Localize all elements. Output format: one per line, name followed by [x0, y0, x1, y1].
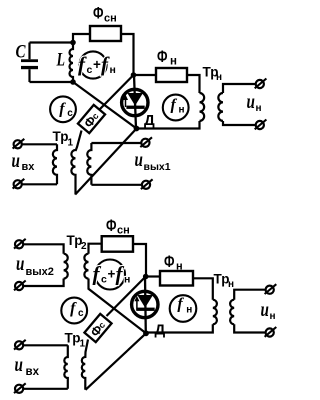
svg-text:вх: вх — [22, 161, 36, 173]
svg-text:с: с — [78, 308, 84, 319]
wire filter Fc to Tr1 winding w2 — [76, 131, 82, 152]
wire Trn primary bottom to node D — [137, 121, 200, 129]
terminal uvyx1 bottom — [141, 179, 153, 189]
wire node A up to filter Fcn — [73, 34, 90, 43]
filter Fcn2 box — [102, 236, 133, 252]
wire uvx2 top terminal to Tr1b w1 — [23, 344, 67, 346]
svg-text:Ф: Ф — [106, 217, 117, 235]
terminal uvx2 top — [14, 340, 26, 350]
oscillator circle fn2 — [170, 295, 197, 322]
wire node C to filter Fn — [134, 74, 157, 76]
transformer Trn secondary winding — [218, 93, 223, 121]
transformer Tr1b winding w2 — [82, 357, 85, 390]
terminal un2 bottom — [265, 327, 277, 337]
filter Fn2 box — [160, 271, 193, 286]
svg-text:с: с — [67, 108, 73, 119]
svg-text:Тр: Тр — [53, 129, 69, 144]
capacitor C1 plates — [21, 59, 38, 69]
capacitor C1 leads — [28, 43, 30, 83]
oscillator circle fc — [50, 96, 76, 122]
svg-text:1: 1 — [68, 138, 74, 149]
svg-text:н: н — [186, 305, 192, 316]
svg-text:сн: сн — [104, 13, 117, 25]
wire uvx top terminal to Tr1 w1 — [22, 143, 57, 145]
wire Fn to transformer Trn primary — [187, 75, 200, 93]
svg-text:н: н — [256, 103, 262, 114]
diode D1 small arrow mark — [123, 95, 128, 108]
wire Tr1 w3 bottom to terminal uvyx1 — [91, 184, 141, 186]
transformer Tr2 winding w1 — [64, 254, 68, 279]
wire bottom C to node B — [30, 81, 74, 83]
signal circle fc+fn 2 — [95, 260, 125, 290]
node D — [134, 126, 140, 132]
node A — [70, 40, 76, 46]
wire diagonal node D2 to apex2 — [86, 333, 147, 390]
label Fc2 rotated in diamond — [88, 319, 109, 340]
wire Trn2 primary bottom to node D2 — [146, 324, 213, 332]
wire top C to node A — [30, 41, 74, 43]
svg-text:н: н — [170, 56, 177, 68]
oscillator circle fc2 — [61, 298, 87, 324]
svg-text:н: н — [270, 311, 276, 322]
diode D1 circle — [122, 89, 148, 115]
wire uvx bottom terminal to Tr1 w1 — [22, 183, 57, 185]
signal circle fc+fn — [79, 51, 106, 78]
label Fc rotated in diamond — [81, 110, 102, 131]
filter Fcn box — [90, 26, 121, 41]
svg-text:C: C — [16, 41, 26, 62]
terminal uvx2 bottom — [14, 383, 26, 393]
svg-text:u: u — [261, 297, 269, 321]
transformer Tr2 winding w2 — [84, 254, 88, 279]
wire node C down through diode to node D — [134, 75, 136, 129]
node B — [70, 79, 76, 85]
diode D2 triangle and cathode bar — [136, 295, 154, 311]
terminal uvyx2 bottom — [14, 281, 26, 291]
wire Trn2 secondary bottom to terminal — [234, 324, 265, 332]
wire filter Fc2 to Tr1b winding w2 — [85, 340, 88, 359]
svg-text:вых2: вых2 — [26, 266, 54, 278]
transformer Tr1 winding w1 (primary) — [53, 144, 57, 184]
terminal uvx bottom — [13, 179, 25, 189]
transformer Tr1 winding w3 (output) — [87, 143, 91, 185]
svg-text:2: 2 — [81, 241, 87, 252]
svg-text:Ф: Ф — [157, 48, 168, 66]
wire node C2 down through diode to node D2 — [144, 277, 147, 334]
svg-text:вх: вх — [26, 366, 40, 378]
wire diagonal node C to filter Fc — [100, 75, 134, 110]
svg-text:L: L — [56, 50, 65, 71]
svg-text:Тр: Тр — [65, 331, 81, 346]
inductor L — [70, 43, 74, 83]
svg-text:сн: сн — [117, 225, 130, 237]
wire Fcn to node C — [121, 34, 134, 75]
terminal uvyx1 top — [140, 137, 152, 147]
filter Fc rotated box — [78, 105, 105, 133]
node D2 — [143, 330, 149, 336]
svg-text:н: н — [179, 105, 185, 116]
wire uvx2 bottom terminal to Tr1b w1 — [23, 388, 67, 390]
svg-text:н: н — [228, 279, 234, 290]
filter Fn box — [156, 68, 187, 82]
terminal un bottom — [255, 120, 267, 130]
svg-text:н: н — [124, 274, 130, 286]
wire diagonal node D to apex — [75, 129, 136, 195]
wire Fcn2 to node C2 — [133, 244, 146, 277]
transformer Trn2 secondary winding — [230, 300, 234, 325]
svg-text:u: u — [247, 89, 255, 113]
svg-text:Д: Д — [144, 112, 155, 129]
diode D1 triangle and cathode bar — [126, 93, 144, 109]
transformer Tr1 winding w2 (middle) — [71, 150, 75, 195]
wire Tr2 w2 top to filter Fcn2 — [89, 244, 102, 254]
wire diagonal node C2 to filter Fc2 — [107, 277, 146, 317]
svg-text:1: 1 — [80, 339, 86, 350]
node C — [131, 72, 137, 78]
svg-text:с: с — [101, 274, 107, 286]
svg-text:u: u — [15, 352, 23, 376]
terminal uvx top — [13, 139, 25, 149]
diode D2 circle — [132, 291, 158, 317]
svg-text:с: с — [87, 64, 93, 76]
terminal un top — [255, 79, 267, 89]
svg-text:+: + — [93, 57, 101, 72]
wire Tr2 w2 bottom diagonal to node D2 — [89, 279, 147, 334]
wire Tr1 w3 top to terminal uvyx1 — [91, 142, 141, 144]
wire node C2 to filter Fn2 — [146, 275, 160, 277]
wire uvyx2 top to Tr2 w1 — [23, 244, 63, 253]
svg-text:Д: Д — [155, 322, 166, 339]
terminal un2 top — [265, 284, 277, 294]
wire Trn2 secondary top to terminal — [234, 290, 265, 300]
wire Trn secondary top to terminal — [223, 84, 255, 93]
svg-text:вых1: вых1 — [144, 161, 171, 173]
wire diagonal node B to node D — [73, 82, 137, 129]
wire Trn secondary bottom to terminal — [223, 121, 255, 125]
diode D2 small arrow mark — [134, 296, 139, 311]
svg-text:u: u — [12, 148, 20, 172]
svg-text:н: н — [176, 261, 183, 273]
svg-text:н: н — [216, 72, 222, 83]
svg-text:Ф: Ф — [164, 253, 175, 271]
transformer Trn2 primary winding — [213, 300, 217, 325]
filter Fc2 rotated box — [84, 314, 111, 342]
svg-text:н: н — [110, 64, 116, 76]
label fc+fn in signal circle — [78, 52, 116, 76]
svg-text:+: + — [108, 267, 116, 282]
transformer Tr1b winding w1 — [64, 345, 68, 389]
label fc+fn2 in signal circle — [93, 262, 131, 286]
wire uvyx2 bottom to Tr2 w1 — [23, 279, 63, 287]
transformer Trn primary winding — [200, 93, 205, 121]
svg-text:Ф: Ф — [93, 5, 104, 23]
wire Fn2 to Trn2 primary — [193, 278, 213, 299]
node C2 — [143, 274, 149, 280]
oscillator circle fn — [163, 95, 189, 121]
svg-text:u: u — [16, 251, 24, 275]
terminal uvyx2 top — [14, 239, 26, 249]
svg-text:u: u — [135, 147, 143, 171]
